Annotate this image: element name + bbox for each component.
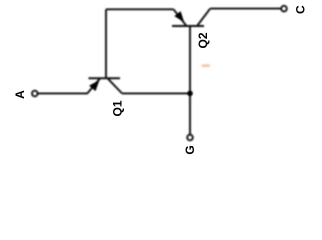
transistor Q2 base bar [172, 25, 204, 27]
transistor Q1 emitter arrow [89, 80, 99, 91]
transistor Q1 emitter diagonal [87, 79, 100, 94]
transistor Q2 base lead wire to junction and G [189, 26, 191, 135]
svg-text:Q1: Q1 [111, 100, 125, 116]
highlight dash near Q2 base [202, 65, 211, 67]
wire Q1 base to Q2 emitter (top) [106, 8, 174, 10]
svg-text:G: G [183, 145, 197, 154]
node A terminal circle [32, 91, 38, 97]
node G terminal circle [187, 135, 193, 141]
transistor Q1 base bar [89, 77, 121, 79]
wire A to Q1 emitter [38, 92, 88, 94]
wire Q1 collector to junction [122, 92, 190, 94]
transistor Q1 base lead [105, 9, 107, 78]
junction dot at Q1 collector / Q2 base / G [187, 91, 193, 97]
wire Q2 collector to C [210, 8, 281, 10]
svg-text:Q2: Q2 [196, 32, 210, 48]
node C terminal circle [281, 6, 287, 12]
transistor Q2 emitter diagonal [174, 9, 187, 25]
svg-text:A: A [13, 90, 27, 99]
transistor Q1 collector diagonal [108, 79, 122, 94]
svg-text:C: C [294, 5, 308, 14]
transistor Q2 collector diagonal [197, 9, 210, 26]
transistor Q2 emitter arrow [174, 11, 184, 22]
